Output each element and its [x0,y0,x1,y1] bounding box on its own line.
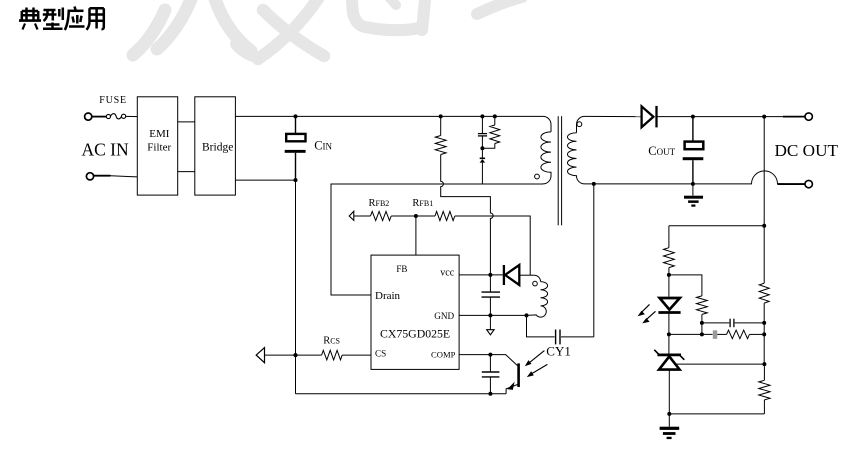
resistor RCS [322,350,343,360]
node junction secondary ground tap [592,182,596,186]
net arrow (CS return) [256,348,264,363]
bridge rectifier block [195,97,236,195]
transformer T1 secondary winding [567,116,584,183]
wire TL431 ref to divider [677,363,765,365]
wire VCC pin [459,274,503,276]
node junction VCC [488,273,492,277]
ground secondary (under COUT) [684,184,703,207]
wire [668,226,670,248]
wire [668,268,670,297]
wire LED cathode down [668,312,670,355]
wire [481,163,483,184]
wire comp lower branch [669,333,713,335]
wire CY1 to secondary ground [561,336,594,338]
svg-text:CIN: CIN [314,139,332,153]
wire bridge bottom output [235,179,295,181]
wire RFB1 to aux winding node [455,216,530,275]
node junction GND/cap [488,313,492,317]
resistor comp lower [727,330,750,339]
fuse F1 [106,114,125,119]
svg-text:DC OUT: DC OUT [775,141,839,160]
wire ground bus bottom [296,393,507,395]
node junction clamp R top [493,114,497,118]
svg-text:CX75GD025E: CX75GD025E [380,326,450,340]
wire [111,176,138,177]
svg-text:Bridge: Bridge [202,141,233,153]
wire [354,215,371,217]
diode D1 output rectifier [642,106,657,128]
svg-text:CS: CS [375,349,386,359]
capacitor CIN (electrolytic) [285,134,306,153]
resistor clamp R [490,125,500,144]
EMI filter block [137,97,177,195]
wire secondary bottom rail with hop over right rail [585,171,786,184]
wire EMI to bridge bottom [178,171,195,173]
LED optocoupler diode [658,298,680,313]
DC output terminal top [805,113,812,120]
wire FB pin [415,216,417,255]
node junction COMP [488,353,492,357]
node junction right rail / fb top [762,224,766,228]
transistor Q1 optocoupler phototransistor [506,355,518,394]
transformer core [558,116,561,225]
resistor divider upper [759,283,769,303]
resistor startup (VIN to VCC) [435,136,446,155]
wire [692,160,694,184]
diode D2 VCC rectifier [504,265,519,285]
wire fb bottom [669,413,764,415]
node junction CIN bottom [294,178,298,182]
node junction COUT top [691,115,695,119]
node junction LED bottom [667,332,671,336]
svg-text:COMP: COMP [431,349,456,359]
wire [94,175,111,177]
node junction comp upper [700,321,704,325]
node junction startup resistor top [439,114,443,118]
svg-text:Drain: Drain [375,290,401,302]
node junction clamp cap top [480,114,484,118]
node junction fb ground [667,412,671,416]
wire bias branch [669,275,702,296]
resistor bias (across LED) [697,296,708,315]
node junction GND/aux [525,313,529,317]
wire secondary ground drop [593,184,595,337]
wire [92,116,106,118]
node junction output right rail [762,115,766,119]
node junction rail/comp upper [762,321,766,325]
wire right output rail down [763,117,765,226]
svg-text:RFB1: RFB1 [412,198,433,209]
capacitor VCC bypass [482,292,501,297]
wire [481,116,483,133]
wire [481,148,483,158]
wire [489,275,491,292]
resistor RFB2 [371,211,392,220]
node junction CS/ground bus [293,353,297,357]
wire GND pin [459,314,526,316]
wire primary ground bus down [295,180,297,394]
wire secondary top to output diode [585,115,642,117]
capacitor CY1 (Y-cap) [556,330,560,345]
wire [265,354,322,356]
capacitor clamp C [478,134,487,136]
wire [295,153,297,180]
wire diode to output terminal [658,116,784,118]
capacitor COMP compensation [482,372,500,377]
svg-text:CY1: CY1 [546,344,571,359]
ground net triangle (primary gnd) [489,315,491,329]
AC input terminal top [85,113,92,120]
resistor LED series [664,248,675,268]
aux polarity dot [533,281,538,286]
wire RCS to CS pin [342,354,371,356]
wire aux gnd to CY1 [527,315,555,337]
node junction LED top / bias tap [667,273,671,277]
node junction divider tap [762,362,766,366]
node junction FB tap [414,214,418,218]
wire comp upper branch [702,322,729,324]
op-amp U1 CX75GD025E controller [371,255,459,369]
svg-text:EMI: EMI [149,128,170,140]
svg-text:RFB2: RFB2 [369,198,390,209]
primary polarity dot [535,174,540,179]
wire [481,136,483,148]
LED emission arrows [638,304,656,323]
svg-text:AC IN: AC IN [82,140,130,160]
wire terminal stub [783,116,805,118]
AC input terminal bottom [86,173,93,180]
wire [701,314,703,334]
capacitor comp upper [730,319,734,328]
node junction comp cap bottom [488,392,492,396]
wire to bottom output terminal [778,183,806,185]
svg-text:COUT: COUT [648,144,675,158]
node junction clamp RC bottom [480,146,484,150]
title 典型应用 (hand-drawn glyphs) [19,7,104,31]
net arrow (to FB divider return) [349,211,354,220]
DC output terminal bottom [805,180,812,187]
wire COMP pin [459,354,506,356]
watermark gray brand characters (cut off at top) [133,0,522,59]
svg-text:FB: FB [396,264,407,274]
wire [692,117,694,142]
wire diode anode to aux winding [519,274,534,276]
node junction top rail / CIN [294,114,298,118]
wire drain rail (primary winding bottom to IC drain) [331,184,543,295]
wire right rail divider [763,226,765,414]
node junction comp lower [700,332,704,336]
transformer auxiliary winding [527,275,548,317]
wire [668,370,670,414]
svg-text:vcc: vcc [440,268,454,279]
wire EMI to bridge top [178,121,195,123]
transformer T1 primary winding [541,116,551,184]
wire clamp R bottom L-bend [482,144,494,149]
resistor divider lower [759,380,770,400]
optocoupler light arrows [525,351,548,378]
wire bridge output to primary winding (rectified + rail) [235,115,543,117]
secondary polarity dot [577,122,582,127]
zener TL431 shunt regulator [654,350,684,370]
node junction rail/comp lower [762,332,766,336]
wire [391,215,435,217]
wire fuse to EMI filter [126,115,138,117]
svg-text:FUSE: FUSE [99,95,127,106]
wire [494,116,496,125]
wire [295,116,297,133]
capacitor comp lower (small) [713,330,717,339]
wire [440,116,442,135]
diode clamp (small) [480,158,486,162]
svg-text:Filter: Filter [147,142,171,154]
resistor RFB1 [435,211,455,220]
capacitor COUT (electrolytic) [683,142,704,161]
wire with hop over drain rail [441,155,493,275]
wire feedback network top [669,225,764,227]
ground feedback network [660,414,680,439]
svg-text:GND: GND [434,311,454,321]
node junction COUT bottom [691,182,695,186]
svg-text:RCS: RCS [323,336,340,347]
